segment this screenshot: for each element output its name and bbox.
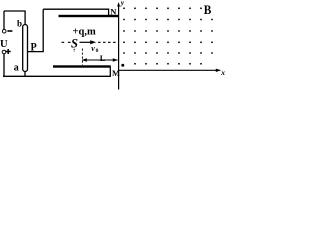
svg-text:B: B xyxy=(204,3,212,17)
svg-text:0: 0 xyxy=(96,48,99,54)
plate M xyxy=(53,65,111,67)
wire plate M to bottom wire xyxy=(109,68,111,77)
L dimension arrow xyxy=(82,59,117,61)
dimension tick below S (dashed) xyxy=(81,49,83,66)
svg-text:+q,m: +q,m xyxy=(73,27,96,38)
wire left from top to terminal b xyxy=(3,11,5,29)
small tick below S xyxy=(73,49,75,52)
svg-text:U: U xyxy=(0,39,8,50)
bold dot at field corner xyxy=(121,64,124,67)
svg-text:a: a xyxy=(14,63,19,74)
svg-text:L: L xyxy=(100,54,106,63)
plate N xyxy=(59,15,119,17)
minus sign of source xyxy=(7,30,12,32)
svg-text:S: S xyxy=(71,37,78,51)
dashed center line left part xyxy=(62,41,72,43)
wire top to plate N xyxy=(43,9,108,15)
wire left from terminal a to bottom xyxy=(3,54,5,77)
terminal b circle xyxy=(2,29,6,33)
wire resistor bottom stub xyxy=(24,72,26,77)
y axis xyxy=(118,4,120,90)
resistor P body xyxy=(23,25,28,72)
dashed center line right part xyxy=(98,41,118,43)
wire bottom xyxy=(3,75,111,77)
svg-text:x: x xyxy=(220,68,225,77)
terminal a circle xyxy=(2,50,6,54)
svg-text:P: P xyxy=(31,41,37,53)
x axis xyxy=(119,69,217,71)
wire slider P tap xyxy=(28,9,43,51)
wire top-left from source to rheostat xyxy=(4,11,25,25)
svg-text:y: y xyxy=(120,0,125,7)
svg-text:b: b xyxy=(17,18,22,28)
plus sign of source xyxy=(6,49,11,54)
svg-text:N: N xyxy=(110,7,117,17)
v0 arrow xyxy=(80,41,92,43)
magnetic field dots xyxy=(123,7,213,64)
